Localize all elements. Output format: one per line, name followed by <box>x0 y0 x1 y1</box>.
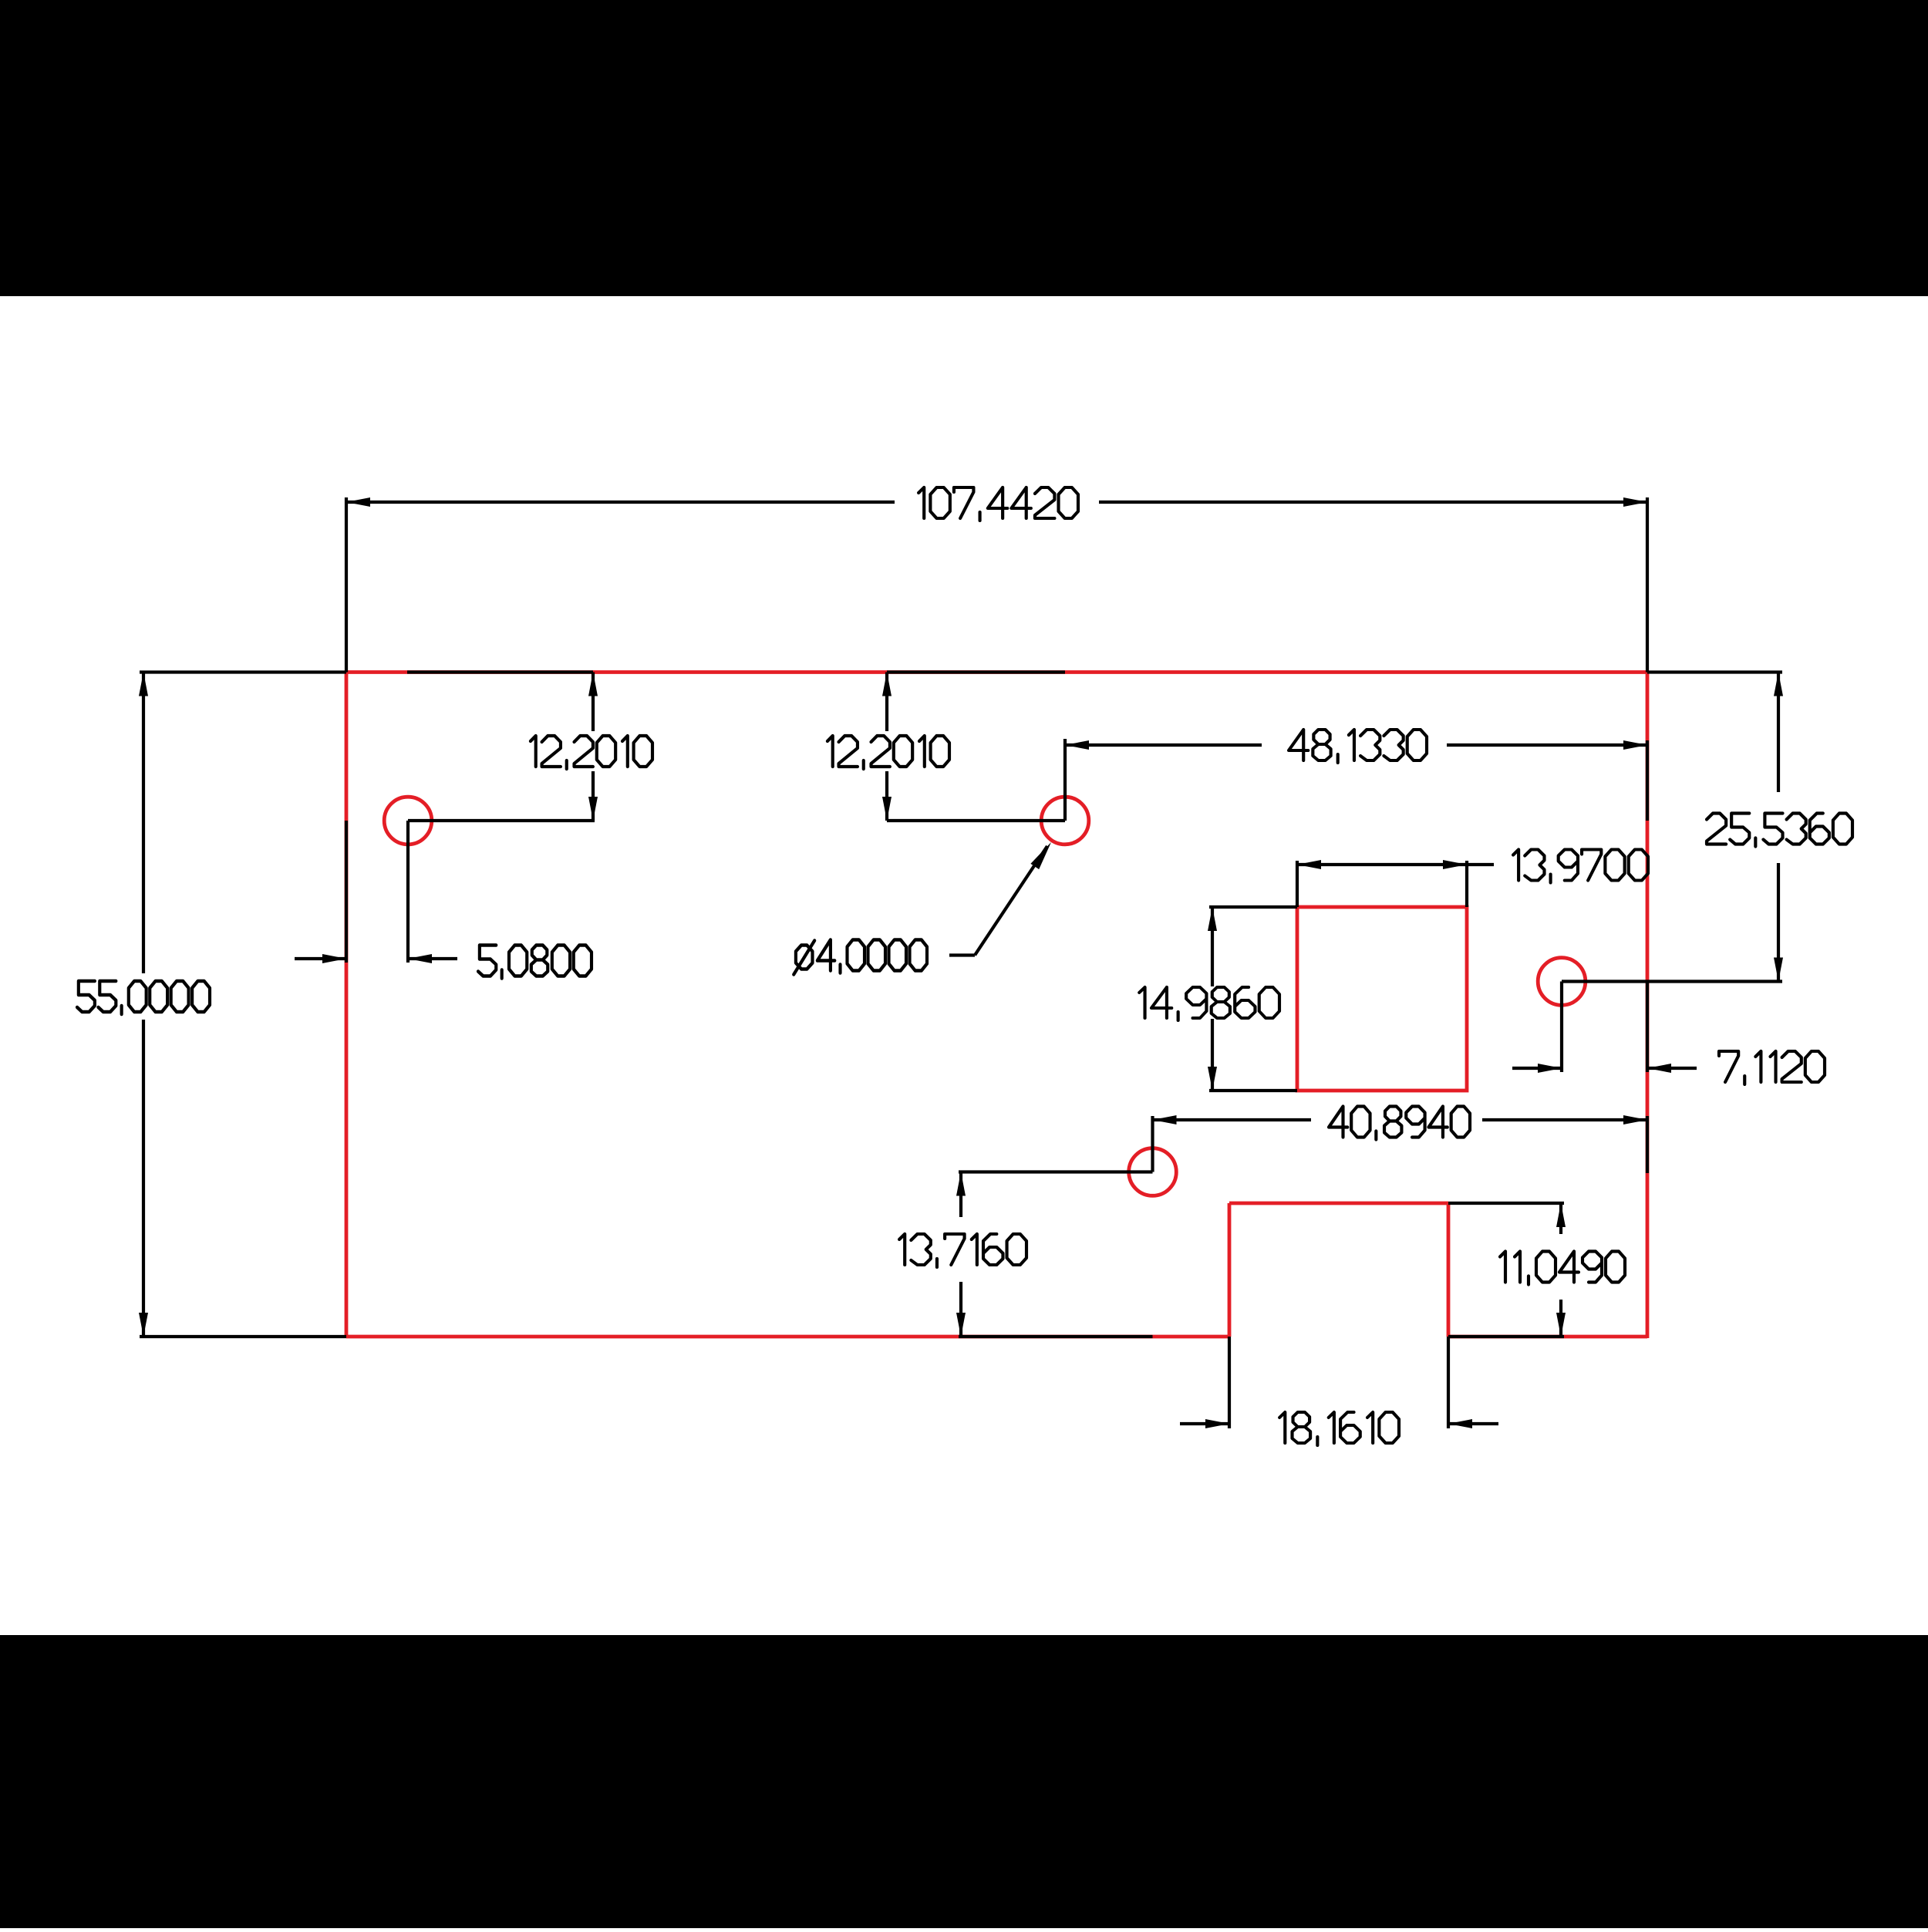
dim 18.1610 notch width <box>1228 1337 1231 1428</box>
plate outline (red) top edge <box>346 670 1647 674</box>
square hole <box>1297 907 1467 1091</box>
dim 55.0000 overall height <box>140 670 346 673</box>
dim 5.0800 hole1 to left edge <box>345 821 348 963</box>
plate bottom edge left of notch <box>346 1335 1229 1339</box>
dim 107.4420 overall width <box>345 497 348 673</box>
hole 2 ø4 (top-middle) <box>1041 797 1089 845</box>
top letterbox band <box>0 0 1928 296</box>
dim 13.7160 hole4 to bottom edge <box>959 1170 1153 1173</box>
dim 40.8940 hole4 to right edge <box>1151 1116 1154 1172</box>
dim 12.2010 hole2 to top edge <box>887 670 1065 673</box>
plate left edge <box>345 671 349 1339</box>
dim 7.1120 hole3 to right edge <box>1560 982 1563 1073</box>
notch top edge <box>1229 1202 1448 1205</box>
dim 12.2010 hole1 to top edge <box>407 670 593 673</box>
notch left edge <box>1228 1203 1232 1337</box>
leader ø4.0000 to hole2 <box>949 953 975 956</box>
dim 14.9860 square hole height <box>1209 905 1297 909</box>
dim 13.9700 square hole width <box>1296 861 1299 907</box>
notch right edge <box>1447 1203 1451 1337</box>
hole 4 ø4 (bottom-middle) <box>1129 1148 1177 1196</box>
bottom letterbox band <box>0 1635 1928 1928</box>
plate bottom edge right of notch <box>1448 1335 1647 1339</box>
dim 11.0490 notch height <box>1448 1202 1564 1205</box>
dim 48.1330 hole2 to right edge <box>1063 739 1067 821</box>
plate right edge <box>1646 671 1650 1339</box>
hole 3 ø4 (right) <box>1538 958 1586 1006</box>
dim 25.5360 hole3 to top edge <box>1647 670 1782 673</box>
hole 1 ø4 (top-left) <box>384 797 432 845</box>
